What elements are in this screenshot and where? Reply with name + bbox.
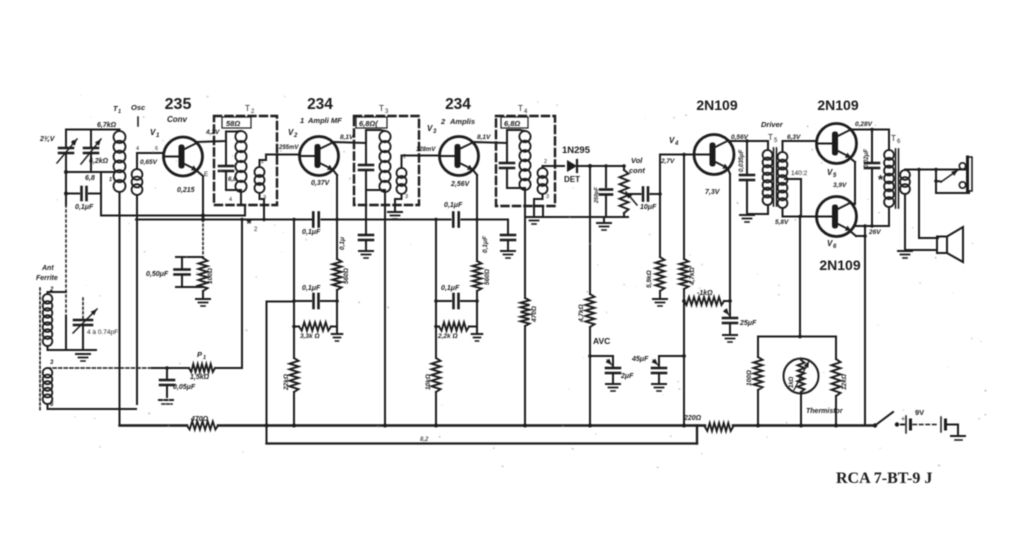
svg-text:4: 4 (229, 197, 232, 203)
resistor 4,7k bias (680, 153, 689, 301)
label 0,56V (731, 134, 749, 141)
svg-text:1: 1 (118, 109, 121, 115)
thermistor (784, 359, 819, 394)
capacitor 10uF (628, 188, 660, 201)
label on bus2 (420, 437, 429, 443)
svg-text:5,9kΩ: 5,9kΩ (646, 270, 653, 288)
svg-text:6,8: 6,8 (85, 175, 95, 182)
svg-text:10μF: 10μF (640, 204, 657, 211)
label 1,5k (190, 374, 210, 381)
label V5 (827, 168, 837, 179)
label T2 (245, 104, 255, 115)
wire V5 emitter to V6 collector (850, 158, 855, 204)
wire y193 with capacitor 0,1uF (66, 187, 101, 200)
svg-text:0,1μF: 0,1μF (482, 235, 489, 253)
label 6,8 Ohm boxed T3 (356, 117, 387, 128)
wire x436 rail to bus (434, 218, 437, 358)
svg-text:234: 234 (307, 96, 333, 113)
wire L1 top (48, 292, 67, 294)
label 0,1uF V3 lower (441, 285, 460, 292)
svg-text:58Ω: 58Ω (226, 119, 240, 128)
junction dots left rail (64, 170, 68, 196)
svg-text:Conv: Conv (167, 115, 188, 124)
T2 primary coil (235, 131, 246, 192)
ground T3 (388, 212, 402, 219)
wire T4 primary bottom (524, 190, 526, 298)
label 6,7kOhm (97, 122, 117, 129)
svg-text:0,28V: 0,28V (855, 121, 873, 128)
svg-text:0,215: 0,215 (177, 187, 195, 194)
svg-text:3: 3 (50, 360, 54, 366)
label 45uF (631, 356, 649, 363)
wire AVC takeoff x590 (589, 166, 591, 294)
wire T3 sec bottom to ground (395, 194, 402, 211)
bus1 left segment (120, 424, 188, 426)
capacitor to ground below T3 (359, 190, 373, 250)
label V1 (150, 128, 160, 139)
label Vol cont (629, 156, 645, 175)
T4 tank capacitor (500, 143, 514, 188)
svg-text:2: 2 (254, 227, 258, 233)
label V6 (827, 239, 837, 250)
label 4,2V (205, 129, 220, 136)
label 2,7V (660, 158, 675, 165)
resistor 5,9k (656, 192, 665, 298)
label DET (564, 175, 580, 184)
label 100 Ohm rot (207, 268, 214, 284)
label 6,2kOhm (89, 158, 109, 165)
svg-text:T: T (768, 133, 773, 142)
svg-text:470Ω: 470Ω (190, 416, 209, 423)
wire top-left to T1 top (66, 129, 120, 131)
label rot 250pF (594, 186, 600, 204)
dotted wire to bias cluster (202, 220, 204, 257)
label 25uF (739, 320, 757, 327)
rail thermistor top (758, 335, 836, 339)
svg-text:4 à 0.74pF: 4 à 0.74pF (87, 329, 118, 336)
label pin 4 (136, 146, 139, 152)
label V4 (669, 136, 679, 147)
svg-text:5,8V: 5,8V (775, 219, 789, 226)
rail B segment 2 (322, 219, 451, 221)
svg-text:0,035μF: 0,035μF (739, 149, 745, 172)
junction dot emitter rail (201, 214, 205, 222)
resistor 1k emitter (682, 297, 732, 305)
label 3,9V (833, 182, 847, 189)
svg-text:560Ω: 560Ω (343, 268, 350, 284)
svg-text:6,3V: 6,3V (787, 134, 801, 141)
svg-text:2μF: 2μF (620, 373, 634, 380)
label 235 Conv (165, 96, 192, 124)
ground 25uF (723, 335, 737, 342)
svg-text:6: 6 (833, 244, 837, 250)
label pin 6 (155, 146, 158, 152)
wire T5 ground stub (747, 213, 768, 215)
wire T5 primary bottom (767, 205, 769, 214)
label 2,2kOhm (437, 333, 458, 340)
wire V1 emitter down (197, 171, 203, 220)
wire x294 rail to bus (292, 218, 295, 358)
label rot 0,02uF (864, 149, 870, 168)
label T5 (768, 133, 778, 144)
T6 primary coil (884, 150, 894, 207)
wire x477 lower (476, 291, 478, 334)
T3 secondary coil (397, 168, 407, 194)
label T4 (518, 104, 528, 115)
T6 secondary coil (900, 170, 910, 194)
battery 9V (901, 416, 958, 433)
ground 45uF (652, 384, 666, 391)
label 6,8 (85, 175, 95, 182)
label 0,37V (311, 180, 331, 187)
svg-text:0,05μF: 0,05μF (173, 384, 196, 391)
svg-text:0,02μF: 0,02μF (864, 149, 870, 168)
label T3 (379, 104, 389, 115)
wire x266 down to buses (265, 302, 269, 444)
label V3 (427, 124, 437, 135)
svg-text:2N109: 2N109 (696, 97, 737, 113)
capacitor 45uF (652, 359, 666, 383)
label V2 (288, 128, 298, 139)
svg-text:7,3V: 7,3V (705, 189, 721, 196)
ground V1 bias (196, 299, 210, 306)
IF transformer T3 dashed box (354, 116, 419, 205)
wire T1 primary bottom x119 (119, 192, 121, 409)
resistor P1 1,5k (189, 364, 242, 372)
wire x865 down to switch (863, 224, 867, 425)
resistor 470 Ohm x525 (521, 298, 530, 326)
label 2N109 (V6) (819, 257, 860, 273)
svg-text:+: + (901, 416, 905, 423)
label rot 0,1uF x508 (482, 235, 489, 253)
oscillator coil T1 secondary (132, 169, 143, 195)
label 0,1uF above (444, 202, 463, 209)
label 8,1V (V2) (340, 134, 354, 141)
svg-text:0,1μF: 0,1μF (444, 202, 463, 209)
svg-text:Ampli MF: Ampli MF (307, 116, 342, 125)
label 2N109 (V5) (817, 97, 858, 113)
label Thermistor (806, 408, 844, 415)
svg-text:4,2V: 4,2V (205, 129, 220, 136)
capacitor 25uF (723, 301, 737, 334)
dashed wire x66 down (65, 205, 67, 350)
T6 core (896, 149, 899, 208)
capacitor 0,50uF (175, 257, 190, 287)
wire RC y301 (V3) (434, 299, 479, 303)
label 0,215 (177, 187, 195, 194)
label pin 6 (50, 402, 54, 408)
svg-text:1: 1 (300, 116, 304, 125)
wire x684 down to bus (682, 301, 686, 428)
wire T1 sec top to V1 base (137, 153, 164, 169)
svg-text:9V: 9V (915, 408, 924, 417)
label 0,65V (140, 159, 158, 166)
svg-text:22kΩ: 22kΩ (283, 374, 290, 391)
stub capacitor x508 (477, 220, 515, 251)
svg-text:*: * (878, 172, 884, 187)
svg-text:RCA 7-BT-9 J: RCA 7-BT-9 J (836, 470, 932, 487)
wire V6 emitter join (850, 231, 867, 238)
wire V4 emitter down (728, 169, 730, 301)
wire T6 sec top to jack (905, 168, 966, 172)
wire left rail x66 (65, 154, 67, 205)
wire x525 to bus (523, 326, 527, 428)
ground under trimmer (76, 354, 90, 361)
svg-text:2: 2 (544, 159, 547, 165)
svg-text:2,56V: 2,56V (450, 181, 471, 188)
svg-text:Thermistor: Thermistor (806, 408, 844, 415)
IF transformer T2 dashed box (214, 116, 277, 205)
resistor 470 Ohm in bus (187, 422, 218, 430)
label pin 2 T4 (544, 159, 547, 165)
label Ant Ferrite (36, 265, 58, 282)
svg-text:4: 4 (674, 141, 679, 147)
wire bias node (176, 256, 203, 258)
label 0,05uF (173, 384, 196, 391)
svg-text:470Ω: 470Ω (531, 306, 538, 323)
svg-text:6: 6 (50, 402, 54, 408)
wire T4 sec bottom to ground (534, 194, 543, 216)
label 140:2 (791, 170, 808, 177)
wire bias bottom (176, 286, 203, 288)
wire V2 collector to T3 (333, 130, 380, 143)
label 26V (868, 229, 881, 236)
capacitor 0,02uF (865, 128, 879, 228)
rail A y215.5 (101, 215, 245, 217)
battery ground (951, 425, 965, 441)
IF transformer T4 dashed box (496, 116, 555, 206)
label rot 1k thermistor (789, 376, 795, 388)
series capacitor 0,1uF on rail (V2) (313, 213, 319, 227)
wire L2 bottom (48, 404, 137, 409)
wire thermistor bottom (799, 392, 803, 428)
label rot 470 T4 (531, 306, 538, 323)
wire L2 top to P1 rail (48, 367, 153, 369)
svg-text:220Ω: 220Ω (683, 415, 702, 422)
svg-text:0,1μF: 0,1μF (75, 204, 94, 211)
svg-text:2: 2 (440, 117, 446, 126)
label 6,3V (787, 134, 801, 141)
jack switch contact (934, 170, 958, 183)
T3 tank capacitor (359, 143, 373, 190)
wire x101 down to rail A (100, 172, 102, 216)
speaker (937, 227, 963, 262)
oscillator coil T1 primary (114, 131, 126, 192)
T5 primary coil (763, 148, 773, 205)
resistor 10k x436 (432, 358, 441, 392)
label 3,3kOhm (300, 333, 320, 340)
svg-text:100Ω: 100Ω (746, 370, 753, 386)
label rot 22k (283, 374, 290, 391)
svg-text:0,1μF: 0,1μF (302, 229, 321, 236)
label pin 3 T2 (263, 195, 266, 201)
svg-text:560Ω: 560Ω (484, 269, 491, 285)
ground below T3 cap (359, 251, 373, 258)
label pin 3 (50, 360, 54, 366)
resistor R-emitter V1 (199, 257, 208, 298)
svg-text:8,2: 8,2 (420, 437, 429, 443)
asterisk mark (246, 216, 258, 233)
wire V1 collector to T2 (197, 132, 236, 143)
label pin 3 T4 (546, 194, 549, 200)
label 234 2 Amplis (440, 96, 475, 126)
capacitor 0,1uF (V3 lower) (454, 294, 478, 308)
svg-text:5: 5 (774, 138, 778, 144)
svg-text:1,5kΩ: 1,5kΩ (190, 374, 210, 381)
wire diode to pot (577, 164, 624, 168)
label 8,1V (V3) (477, 134, 491, 141)
label 220 Ohm (683, 415, 702, 422)
svg-text:2,2k Ω: 2,2k Ω (437, 333, 458, 340)
wire V6 collector wire y226 (855, 207, 889, 226)
svg-text:6,8Ω(: 6,8Ω( (359, 119, 379, 128)
rail B segment 3 (462, 219, 478, 221)
svg-text:DET: DET (564, 175, 580, 184)
svg-text:0,50μF: 0,50μF (146, 271, 169, 278)
resistor 220 Ohm on bus (705, 423, 733, 431)
svg-text:T: T (891, 134, 896, 143)
svg-text:Ferrite: Ferrite (36, 275, 58, 282)
svg-text:4: 4 (136, 146, 139, 152)
label 4 a 0.74pF (87, 329, 118, 336)
label 6,8 T2 (228, 177, 237, 183)
bus1 mid segment (218, 424, 705, 426)
ground detector (597, 217, 611, 230)
wire x136 down (136, 195, 138, 404)
resistor 3,3k (V2) (292, 322, 337, 330)
earphone jack (959, 157, 972, 192)
svg-text:5: 5 (833, 173, 837, 179)
svg-text:6: 6 (897, 139, 901, 145)
svg-text:Driver: Driver (761, 120, 784, 129)
bus2 (267, 426, 698, 444)
wire 45uF stub (659, 356, 684, 366)
resistor emitter V3 (473, 261, 482, 291)
label 0,50uF (146, 271, 169, 278)
transistor V6 (817, 197, 857, 237)
variable capacitor CV1 (tuning) (57, 130, 77, 164)
diode 1N295 DET (567, 160, 577, 172)
wire T5 sec top to V5 base (783, 141, 817, 152)
svg-text:10kΩ: 10kΩ (425, 374, 432, 390)
svg-text:2: 2 (251, 109, 255, 115)
resistor 12k (832, 337, 841, 428)
svg-text:3: 3 (546, 194, 549, 200)
wire x436 to bus (434, 392, 438, 428)
small ground x337 (332, 334, 343, 341)
wire AVC node to caps (590, 356, 613, 366)
series capacitor 0,1uF on rail (V3) (453, 213, 459, 227)
wire to V4 base (660, 155, 694, 195)
svg-text:250pF: 250pF (594, 186, 600, 204)
svg-text:6,8Ω: 6,8Ω (504, 119, 520, 128)
label P1 (197, 350, 206, 361)
wire V5 collector to T6 (850, 130, 889, 151)
label 7,3V (705, 189, 721, 196)
label pin 2 T3 (403, 154, 406, 160)
capacitor 0,1uF (V2 lower) (314, 294, 338, 308)
svg-text:Amplis: Amplis (449, 117, 475, 126)
label 2 3/4V (39, 136, 56, 143)
T5 core (774, 148, 777, 206)
label rot 100 Ohm (746, 370, 753, 386)
svg-text:2¾V: 2¾V (39, 136, 56, 143)
ground T6 secondary (898, 251, 912, 258)
svg-text:2N109: 2N109 (819, 257, 860, 273)
wire V3 emitter down x477 (473, 170, 479, 261)
resistor 100 Ohm (754, 337, 763, 428)
label rot 12k (841, 374, 848, 390)
label pin 1 (109, 177, 112, 183)
wire L1 bottom (48, 346, 97, 350)
wire T4 sec top to diode (543, 166, 565, 168)
wire jack lower (936, 191, 969, 193)
label rot 0,1uF T3 (339, 237, 346, 250)
ground 2uF (606, 384, 620, 391)
wire T2 sec top to V2 base (260, 155, 300, 168)
volume potentiometer (620, 164, 638, 217)
label 2N109 (V4) (696, 97, 737, 113)
dotted ground 0,05uF (159, 400, 175, 404)
wire T3 tank bottom (366, 189, 385, 191)
svg-text:Vol: Vol (631, 156, 643, 165)
svg-text:AVC: AVC (593, 336, 610, 346)
wire to speaker (919, 170, 938, 239)
svg-text:E: E (204, 172, 208, 178)
svg-text:1N295: 1N295 (562, 145, 591, 156)
svg-text:8,1V: 8,1V (477, 134, 491, 141)
wire T6 sec bottom (904, 194, 906, 250)
transistor V3 (440, 137, 479, 176)
wire jack mid (936, 170, 941, 194)
label rot 560 Ohm V3 (484, 269, 491, 285)
svg-text:128mV: 128mV (416, 147, 436, 153)
svg-text:4: 4 (524, 109, 528, 115)
label pin 3 T3 (405, 194, 408, 200)
wire RC y301 (V2) (292, 299, 339, 303)
wire V2 emitter down x337 (333, 170, 339, 259)
label pin 4 T2 (229, 197, 232, 203)
svg-text:26V: 26V (868, 229, 881, 236)
svg-text:235: 235 (165, 96, 192, 113)
label 0,28V (855, 121, 873, 128)
capacitor 250pF detector (600, 166, 612, 217)
antenna coil L2 (43, 368, 53, 404)
wire T2 primary bottom jog (241, 192, 245, 216)
wire T3 primary bottom to bus (383, 192, 387, 428)
title RCA 7-BT-9 J (836, 470, 932, 487)
ground x508 (501, 251, 515, 258)
wire V3 collector to T4 (473, 130, 520, 143)
label Driver (761, 120, 784, 129)
label rot 4,7k AVC (578, 304, 585, 323)
svg-text:2: 2 (293, 133, 298, 139)
label 10uF (640, 204, 657, 211)
wire x294 to bus (292, 392, 296, 428)
svg-text:2N109: 2N109 (817, 97, 858, 113)
svg-text:140:2: 140:2 (791, 170, 808, 177)
svg-text:6: 6 (155, 146, 158, 152)
wire y301 to left drop (267, 301, 295, 303)
antenna coil L1 (43, 294, 53, 346)
label 58 Ohm boxed (222, 117, 251, 128)
wire T2 sec bottom to rail (260, 193, 266, 221)
ground T4 (527, 217, 541, 224)
svg-text:0,1μF: 0,1μF (441, 285, 460, 292)
bus1 right segment (733, 424, 875, 426)
transistor V1 (164, 137, 203, 176)
T2 tank capacitor (219, 141, 233, 190)
